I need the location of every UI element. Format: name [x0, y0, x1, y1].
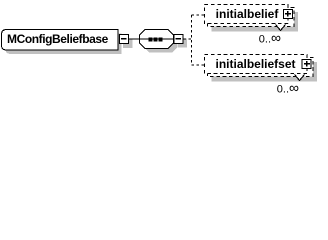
- occurrence chevron of initialbelief: [276, 25, 286, 31]
- element initialbelief back box: [208, 8, 295, 27]
- expand box (plus) of initialbelief: [284, 10, 293, 19]
- shadow of sequence octagon: [144, 34, 178, 53]
- sequence mid line: [140, 38, 174, 40]
- shadow of element MConfigBeliefbase: [6, 34, 122, 55]
- XML schema diagram: [0, 0, 328, 98]
- svg-text:MConfigBeliefbase: MConfigBeliefbase: [7, 32, 109, 46]
- wire trunk to initialbeliefset: [192, 64, 205, 66]
- sequence dots: [149, 38, 153, 42]
- shadow of collapse box of sequence: [178, 39, 187, 48]
- svg-text:initialbeliefset: initialbeliefset: [215, 57, 295, 71]
- element initialbeliefset back box: [208, 58, 314, 77]
- collapse box (minus) of MConfigBeliefbase: [120, 35, 129, 44]
- wire root to sequence: [129, 38, 141, 40]
- shadow of initialbeliefset stacked box: [212, 62, 318, 82]
- shadow of initialbelief stacked box: [212, 12, 299, 32]
- root element MConfigBeliefbase box: [2, 30, 119, 51]
- wire sequence to trunk (dashed): [184, 38, 192, 40]
- shadow of collapse box of MConfigBeliefbase: [123, 39, 133, 49]
- trunk vertical dashed line: [191, 15, 193, 65]
- element initialbeliefset front box: [205, 55, 308, 74]
- occurrence chevron of initialbeliefset: [295, 75, 305, 81]
- expand box (plus) of initialbeliefset: [302, 60, 311, 69]
- wire trunk to initialbelief: [192, 14, 205, 16]
- collapse box (minus) of sequence: [174, 35, 183, 44]
- sequence compositor octagon: [140, 30, 174, 49]
- svg-text:initialbelief: initialbelief: [216, 7, 280, 21]
- element initialbelief front box: [205, 5, 289, 24]
